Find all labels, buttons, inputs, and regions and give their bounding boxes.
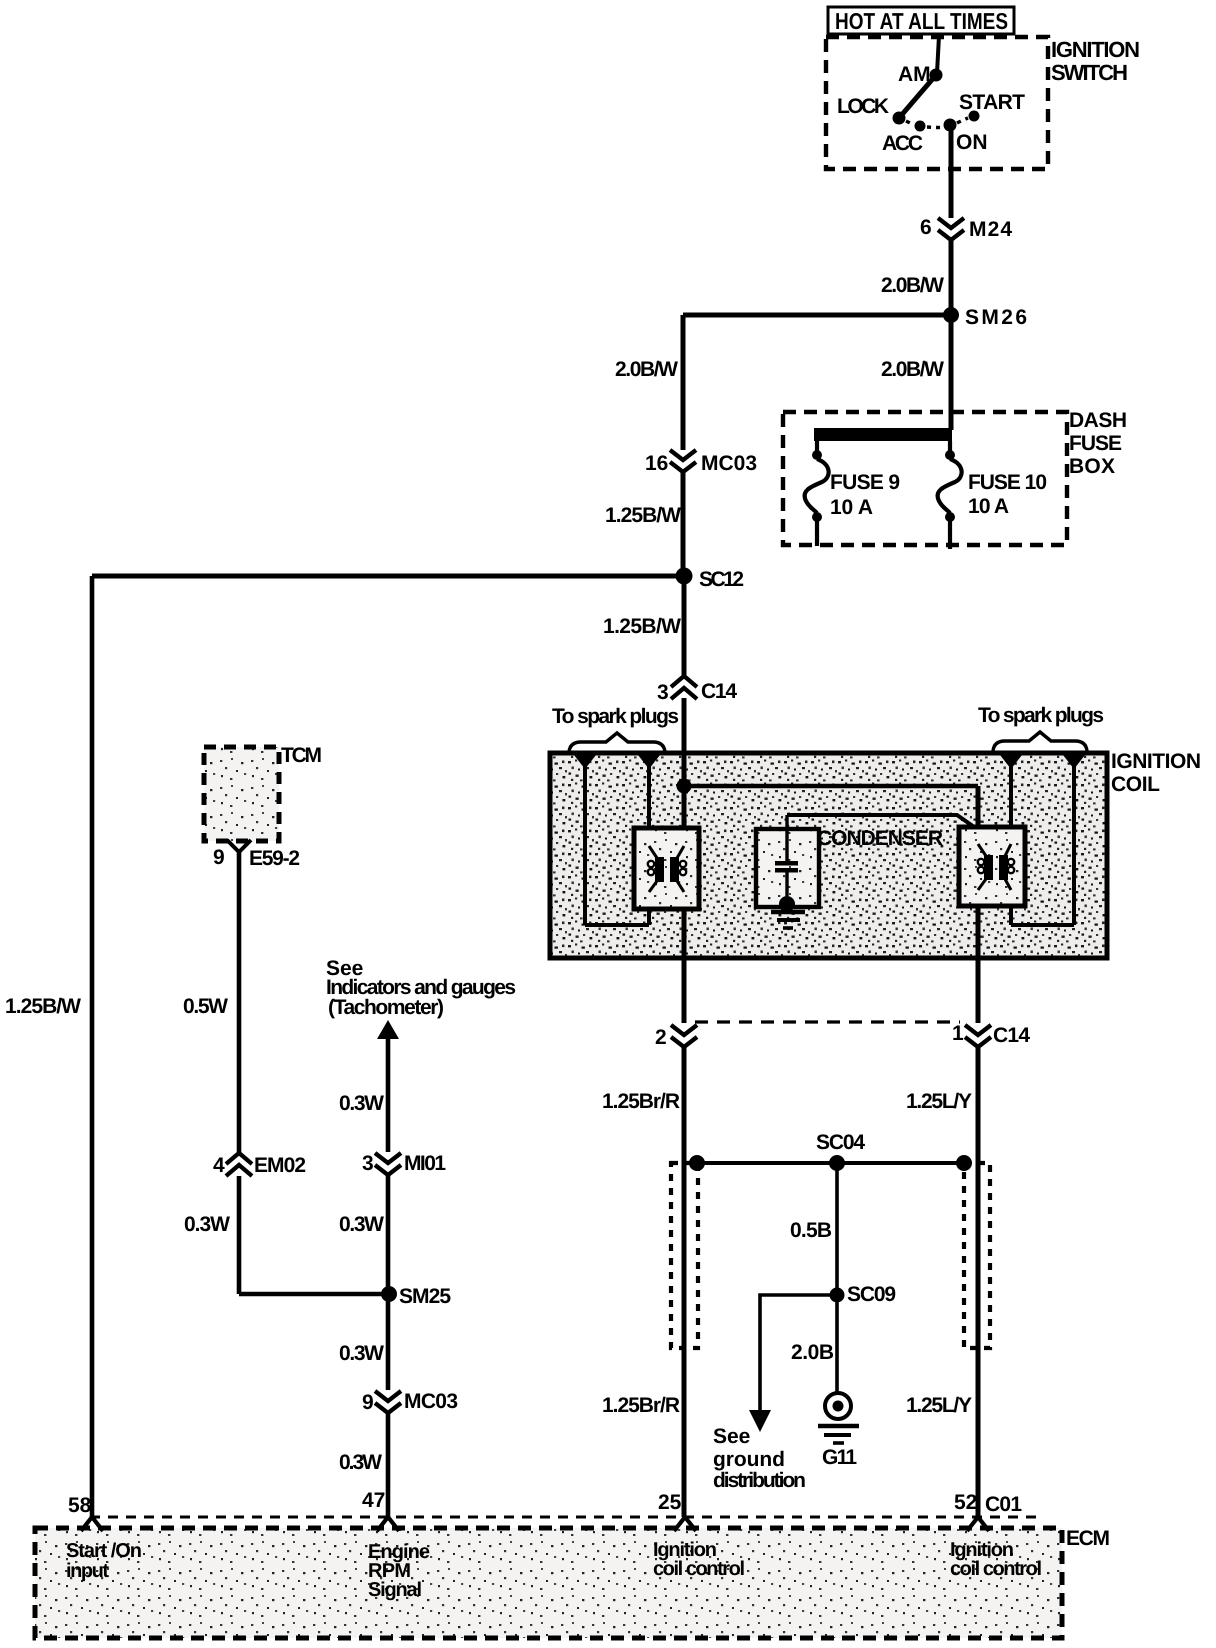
svg-text:input: input (66, 1560, 109, 1582)
svg-text:C14: C14 (993, 1024, 1030, 1047)
svg-text:TCM: TCM (281, 744, 322, 767)
svg-text:See: See (713, 1425, 750, 1448)
svg-text:MC03: MC03 (701, 452, 757, 475)
svg-text:3: 3 (362, 1152, 374, 1175)
svg-text:SM26: SM26 (965, 306, 1027, 329)
svg-text:FUSE: FUSE (1069, 432, 1122, 455)
svg-text:1.25B/W: 1.25B/W (605, 504, 681, 527)
svg-text:distribution: distribution (713, 1469, 806, 1492)
svg-text:MC03: MC03 (404, 1390, 458, 1413)
svg-text:M24: M24 (969, 218, 1012, 241)
svg-text:1.25Br/R: 1.25Br/R (602, 1394, 680, 1417)
svg-text:0.5W: 0.5W (183, 995, 228, 1018)
svg-text:Signal: Signal (368, 1579, 422, 1601)
svg-text:0.3W: 0.3W (339, 1451, 382, 1474)
svg-text:25: 25 (658, 1491, 682, 1514)
svg-text:BOX: BOX (1069, 455, 1115, 478)
svg-text:9: 9 (362, 1391, 374, 1414)
svg-text:C14: C14 (701, 680, 737, 703)
svg-text:MI01: MI01 (404, 1152, 446, 1175)
svg-text:1.25B/W: 1.25B/W (603, 615, 681, 638)
svg-text:9: 9 (213, 846, 225, 869)
svg-text:0.3W: 0.3W (339, 1342, 384, 1365)
svg-text:DASH: DASH (1069, 409, 1127, 432)
svg-text:Start /On: Start /On (66, 1540, 142, 1562)
svg-text:1: 1 (952, 1022, 964, 1045)
svg-text:CONDENSER: CONDENSER (817, 827, 943, 850)
svg-text:2.0B/W: 2.0B/W (615, 358, 678, 381)
svg-text:0.3W: 0.3W (339, 1213, 384, 1236)
svg-text:START: START (959, 91, 1025, 114)
svg-text:2.0B: 2.0B (791, 1341, 834, 1364)
svg-text:To spark plugs: To spark plugs (978, 704, 1104, 727)
svg-text:ground: ground (713, 1448, 785, 1471)
svg-text:FUSE 10: FUSE 10 (968, 471, 1047, 494)
svg-text:IGNITION: IGNITION (1051, 37, 1140, 62)
svg-text:IGNITION: IGNITION (1111, 750, 1201, 773)
svg-text:coil control: coil control (653, 1558, 745, 1580)
svg-text:1.25L/Y: 1.25L/Y (906, 1090, 972, 1113)
svg-text:G11: G11 (822, 1446, 857, 1469)
svg-text:SWITCH: SWITCH (1051, 60, 1128, 85)
svg-text:LOCK: LOCK (837, 95, 889, 118)
svg-text:C01: C01 (985, 1493, 1022, 1516)
svg-text:COIL: COIL (1111, 773, 1160, 796)
svg-text:(Tachometer): (Tachometer) (328, 996, 444, 1019)
svg-text:1.25L/Y: 1.25L/Y (906, 1394, 972, 1417)
svg-text:coil control: coil control (950, 1558, 1042, 1580)
svg-text:52: 52 (954, 1491, 977, 1514)
svg-text:0.3W: 0.3W (184, 1213, 230, 1236)
svg-text:10 A: 10 A (968, 495, 1009, 518)
svg-text:SC04: SC04 (816, 1131, 865, 1154)
svg-text:4: 4 (213, 1154, 225, 1177)
svg-text:SC09: SC09 (847, 1283, 896, 1306)
svg-text:0.5B: 0.5B (790, 1219, 832, 1242)
svg-text:3: 3 (657, 681, 669, 704)
svg-text:ECM: ECM (1066, 1527, 1110, 1550)
svg-text:47: 47 (362, 1489, 385, 1512)
svg-text:ON: ON (956, 131, 988, 154)
svg-text:To spark plugs: To spark plugs (552, 705, 679, 728)
svg-text:AM: AM (898, 63, 931, 86)
svg-text:10 A: 10 A (830, 496, 873, 519)
svg-text:2.0B/W: 2.0B/W (881, 358, 944, 381)
svg-text:6: 6 (920, 216, 932, 239)
svg-text:1.25Br/R: 1.25Br/R (602, 1090, 680, 1113)
svg-text:2.0B/W: 2.0B/W (881, 274, 944, 297)
svg-text:EM02: EM02 (254, 1154, 306, 1177)
svg-text:SM25: SM25 (399, 1285, 451, 1308)
svg-text:HOT AT ALL TIMES: HOT AT ALL TIMES (835, 8, 1008, 34)
svg-text:2: 2 (655, 1026, 667, 1049)
svg-text:16: 16 (645, 452, 668, 475)
svg-text:0.3W: 0.3W (339, 1092, 384, 1115)
svg-text:1.25B/W: 1.25B/W (5, 995, 81, 1018)
svg-text:FUSE 9: FUSE 9 (830, 471, 900, 494)
svg-text:ACC: ACC (882, 132, 923, 155)
svg-text:E59-2: E59-2 (249, 847, 300, 870)
svg-text:SC12: SC12 (699, 568, 744, 591)
svg-text:58: 58 (68, 1494, 92, 1517)
